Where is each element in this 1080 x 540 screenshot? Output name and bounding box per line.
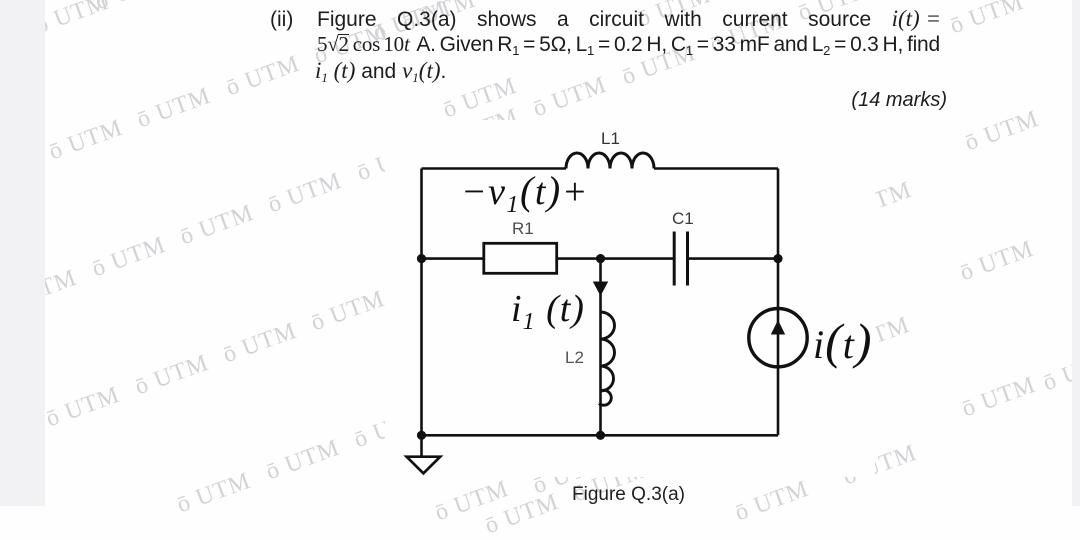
resistor R1	[484, 243, 557, 273]
current source i(t) circle	[749, 309, 807, 367]
svg-text:L2: L2	[565, 348, 584, 367]
wire middle center	[557, 257, 675, 260]
wire top-right segment	[654, 167, 778, 170]
problem text line 1	[270, 9, 293, 30]
svg-text:i(t): i(t)	[813, 313, 873, 369]
node right-middle	[773, 254, 782, 263]
figure caption	[572, 485, 685, 504]
marks	[847, 90, 947, 110]
wire right side	[777, 169, 780, 436]
inductor L1	[566, 153, 654, 169]
right margin bar	[1072, 0, 1080, 506]
wire middle left	[422, 257, 484, 260]
capacitor C1	[674, 232, 687, 286]
wire bottom	[422, 434, 779, 437]
svg-text:R1: R1	[512, 219, 534, 238]
watermark layer	[0, 0, 1080, 1]
inductor L2	[599, 312, 615, 405]
figure white panel + circuit	[385, 120, 875, 477]
svg-text:i1 (t): i1 (t)	[511, 288, 585, 335]
wire middle right	[688, 257, 779, 260]
problem text line 3	[315, 59, 446, 82]
arrow source up	[771, 320, 785, 335]
node center-middle	[596, 254, 605, 263]
node bottom-center	[596, 431, 605, 440]
svg-text:−v1(t)+: −v1(t)+	[461, 168, 589, 218]
svg-text:L1: L1	[601, 129, 620, 148]
ground stub	[420, 435, 423, 456]
node bottom-left	[417, 431, 426, 440]
wire middle branch	[599, 259, 602, 436]
ground triangle	[407, 457, 441, 474]
wire left side	[420, 169, 423, 436]
arrow i1 down	[593, 282, 608, 297]
wire top-left segment	[422, 167, 567, 170]
left margin bar	[0, 0, 45, 506]
node left-middle	[417, 254, 426, 263]
problem text line 2	[317, 34, 941, 55]
svg-text:C1: C1	[672, 209, 694, 228]
